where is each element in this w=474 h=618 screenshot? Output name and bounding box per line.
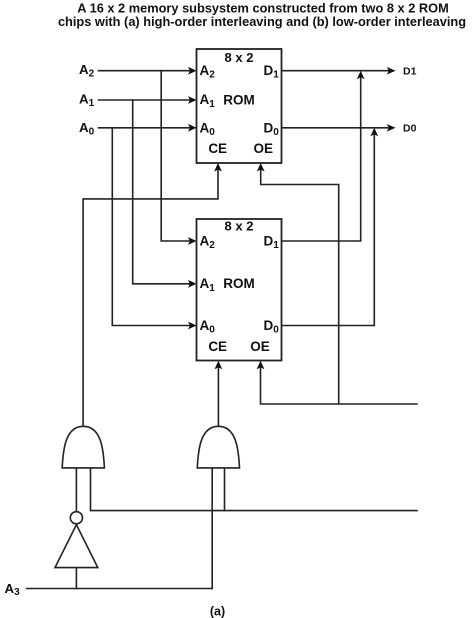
svg-text:CE: CE <box>208 339 227 354</box>
svg-text:D1: D1 <box>403 66 417 78</box>
svg-text:ROM: ROM <box>223 93 255 108</box>
svg-text:(a): (a) <box>210 605 225 618</box>
svg-text:8 x 2: 8 x 2 <box>225 50 254 65</box>
svg-text:OE: OE <box>253 141 273 156</box>
svg-text:ROM: ROM <box>223 276 255 291</box>
svg-text:D0: D0 <box>403 123 417 135</box>
svg-text:CE: CE <box>208 141 227 156</box>
svg-text:8 x 2: 8 x 2 <box>225 219 254 234</box>
svg-text:OE: OE <box>250 339 270 354</box>
svg-text:chips with (a) high-order inte: chips with (a) high-order interleaving a… <box>58 14 466 29</box>
